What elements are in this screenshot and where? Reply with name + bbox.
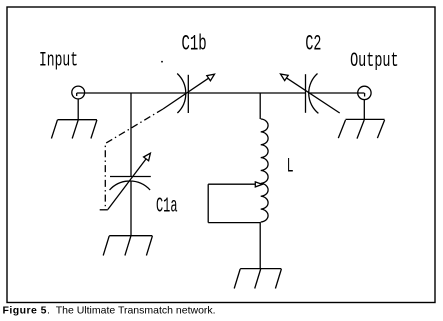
wire: output connector to ground [363,100,365,120]
wire: bus junction down to inductor L [259,93,261,119]
input connector J1 [72,86,85,99]
svg-text:C1b: C1b [182,31,207,56]
C1a variable arrow [108,153,151,209]
wire: bus junction down to C1a [130,93,132,177]
capacitor C1a plates [110,177,151,191]
ground (output) [338,119,384,138]
C2 variable arrow [281,74,340,113]
inductor L coil [261,119,268,222]
wire: C1a to ground [130,181,132,236]
stray dot [161,61,163,63]
ground (C1a) [103,236,152,256]
ground (L) [234,269,281,289]
J1 center pin stub [76,93,78,96]
svg-text:C2: C2 [305,31,321,56]
wire: coil bottom to ground [259,223,261,269]
svg-text:Input: Input [39,50,78,73]
tap return wire (bottom side) [208,222,261,224]
capacitor C2 plates [306,74,319,114]
tap arrowhead [255,182,262,187]
wire: top bus, C1b stator to C2 stator [188,92,305,94]
C1b variable arrow [163,74,215,109]
J2 center pin stub [364,93,366,97]
wire: top bus, input to C1b rotor [77,92,186,94]
tap return wire (left side) [207,184,209,222]
wire: top bus, C2 rotor to output [309,92,365,94]
ground (input) [51,120,97,139]
svg-text:Output: Output [350,50,399,73]
wire: input connector to ground [77,99,79,120]
gang link end dash [100,209,108,211]
gang link C1a-C1b (dash-dot) [105,109,163,207]
capacitor C1b plates [177,74,188,114]
svg-text:C1a: C1a [156,195,178,219]
output connector J2 [358,86,371,99]
svg-text:Figure 5. The Ultimate Transm: Figure 5. The Ultimate Transmatch networ… [3,305,216,317]
svg-text:L: L [287,156,294,179]
tap wire into coil [208,183,255,185]
